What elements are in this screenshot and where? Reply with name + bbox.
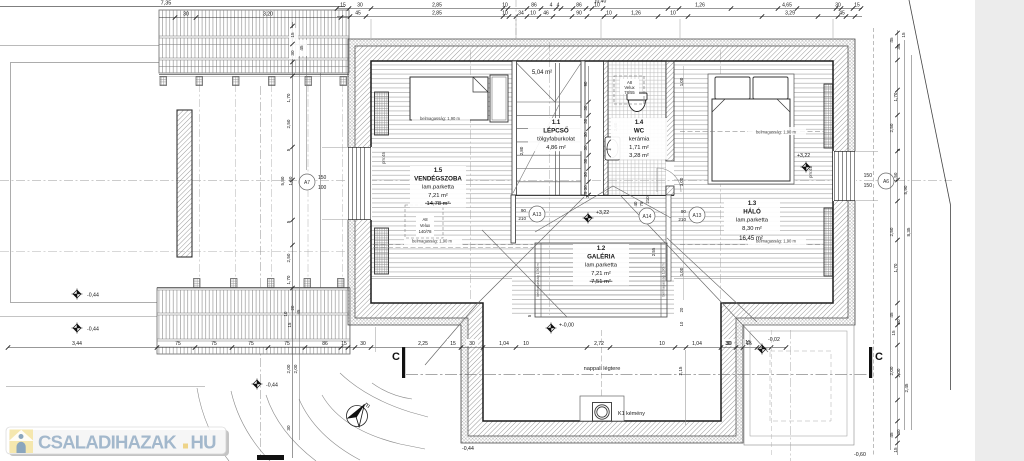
extension lines below [375, 327, 377, 352]
svg-text:A6: A6 [883, 179, 889, 185]
toilet [627, 93, 647, 112]
svg-text:100: 100 [318, 185, 327, 191]
svg-text:1,04: 1,04 [499, 341, 509, 347]
guest bed 1.90 label [412, 114, 470, 122]
svg-text:A7: A7 [304, 180, 310, 186]
svg-text:2,15: 2,15 [678, 366, 683, 375]
svg-text:+3,22: +3,22 [797, 153, 810, 159]
svg-text:pm:45: pm:45 [381, 152, 386, 164]
axis dash horizontal y251 [0, 251, 348, 253]
svg-text:A13: A13 [533, 212, 542, 218]
bottom terrace deck planks [157, 288, 350, 354]
floor area boundary lines [371, 278, 512, 280]
svg-text:30: 30 [583, 105, 588, 110]
level +3,22 center [583, 213, 594, 224]
chimney K1 [580, 396, 624, 421]
svg-text:C: C [392, 351, 400, 363]
svg-text:1,26: 1,26 [695, 3, 705, 9]
svg-text:15: 15 [745, 340, 751, 346]
pillar / lower chimney [177, 110, 192, 257]
top dimension chain row1 [337, 8, 862, 10]
north arrow [347, 406, 368, 427]
svg-text:1,04: 1,04 [692, 341, 702, 347]
svg-text:3,44: 3,44 [72, 341, 82, 347]
svg-text:15: 15 [290, 32, 295, 38]
svg-text:10: 10 [659, 341, 665, 347]
galeria right knee wall [666, 195, 671, 281]
guest bed [410, 77, 488, 120]
svg-text:-0,44: -0,44 [87, 327, 99, 333]
structural axes in house [549, 42, 551, 315]
svg-text:3,28 m²: 3,28 m² [629, 153, 649, 159]
window A7 left wall [347, 147, 372, 220]
svg-text:86: 86 [576, 3, 582, 9]
roof window A8 (WC) [614, 76, 644, 104]
svg-text:15: 15 [287, 322, 292, 327]
svg-text:210: 210 [645, 196, 650, 204]
stair tread dimension chain [588, 66, 590, 198]
stair left wall [512, 61, 517, 195]
svg-text:7,51 m²: 7,51 m² [591, 279, 611, 285]
svg-text:1.3: 1.3 [748, 201, 757, 207]
galeria labels [573, 244, 629, 286]
long valley right [667, 238, 757, 322]
svg-text:2,72: 2,72 [594, 341, 604, 347]
svg-text:150: 150 [318, 175, 327, 181]
svg-text:2,50: 2,50 [286, 119, 291, 128]
svg-text:-0,02: -0,02 [768, 337, 780, 343]
svg-text:-0,44: -0,44 [87, 293, 99, 299]
svg-text:1,70: 1,70 [286, 93, 291, 102]
svg-text:10: 10 [523, 341, 529, 347]
svg-text:30: 30 [290, 50, 295, 56]
svg-text:45: 45 [355, 11, 361, 17]
svg-text:2,50: 2,50 [286, 253, 291, 262]
level marker -0,02 [757, 344, 768, 355]
right dim chain [890, 40, 892, 450]
deck post axes [199, 84, 201, 288]
svg-text:150: 150 [864, 173, 873, 179]
svg-text:86: 86 [531, 3, 537, 9]
svg-text:14,78 m²: 14,78 m² [427, 201, 450, 207]
watermark house icon [10, 430, 34, 454]
svg-text:belmagasság: 1,90 m: belmagasság: 1,90 m [756, 130, 797, 135]
site boundary line top [0, 6, 345, 8]
svg-text:7,35: 7,35 [161, 1, 172, 7]
WC door arc [657, 168, 681, 192]
svg-text:45: 45 [889, 312, 894, 318]
wash basin [605, 137, 620, 160]
scale bar [257, 455, 284, 460]
svg-text:1,26: 1,26 [631, 11, 641, 17]
svg-text:tölgyfaburkolat: tölgyfaburkolat [537, 137, 575, 143]
svg-text:15: 15 [893, 447, 898, 453]
svg-text:150: 150 [864, 183, 873, 189]
height 1.90 dashed bedroom top [680, 131, 824, 133]
svg-text:8,30 m²: 8,30 m² [742, 226, 762, 232]
svg-text:1,70: 1,70 [893, 263, 898, 272]
level +3,22 bedroom [801, 162, 812, 173]
svg-text:46: 46 [543, 11, 549, 17]
bedroom labels [724, 199, 780, 232]
svg-text:2,80: 2,80 [519, 146, 524, 155]
deck posts row top [160, 77, 167, 86]
svg-text:75: 75 [639, 201, 644, 206]
svg-text:15: 15 [891, 330, 896, 336]
svg-text:2,45: 2,45 [904, 383, 909, 392]
site boundary diagonal [909, 0, 951, 205]
svg-text:45: 45 [299, 45, 304, 51]
axis dash horizontal center y180 [0, 180, 952, 182]
svg-text:3,29: 3,29 [785, 11, 795, 17]
svg-text:7,21 m²: 7,21 m² [428, 193, 448, 199]
outer insulation band (cross-hatch) [348, 39, 855, 443]
svg-text:20: 20 [679, 307, 684, 312]
svg-text:10: 10 [502, 11, 508, 17]
stair center stringer [555, 63, 557, 195]
ground line lower left [6, 386, 205, 388]
svg-text:30: 30 [286, 425, 291, 431]
svg-text:5,90: 5,90 [903, 185, 908, 194]
pillows [715, 77, 750, 99]
level -0,44 markers [72, 289, 83, 300]
lower terrace outline [11, 63, 321, 303]
svg-text:LÉPCSŐ: LÉPCSŐ [543, 126, 569, 134]
svg-text:HÁLÓ: HÁLÓ [743, 207, 761, 215]
svg-text:3,20: 3,20 [263, 12, 273, 18]
lower terrace axis dashes [771, 330, 773, 458]
top terrace deck planks [159, 10, 349, 73]
section marker C right [869, 347, 872, 378]
svg-text:75: 75 [175, 341, 181, 347]
svg-text:1,00: 1,00 [679, 267, 684, 276]
stair right wall [581, 61, 585, 195]
svg-text:1.1: 1.1 [552, 120, 561, 126]
svg-text:75: 75 [284, 341, 290, 347]
window A7 marker [299, 174, 315, 190]
radiator upper left [375, 92, 389, 135]
svg-text:16,45 m²: 16,45 m² [739, 236, 763, 242]
svg-text:1.4: 1.4 [635, 120, 644, 126]
svg-text:-0,44: -0,44 [266, 383, 278, 389]
svg-text:210: 210 [518, 216, 526, 221]
svg-text:86: 86 [322, 341, 328, 347]
svg-text:30: 30 [360, 341, 366, 347]
svg-text:45: 45 [296, 309, 301, 314]
svg-text:lam.parketta: lam.parketta [585, 263, 618, 269]
svg-text:10: 10 [502, 3, 508, 9]
svg-text:15: 15 [901, 32, 906, 38]
stair treads [517, 102, 582, 195]
guest nightstand [490, 75, 508, 122]
svg-text:nappali légtere: nappali légtere [584, 366, 621, 372]
roof ridge V [535, 186, 671, 232]
svg-text:10: 10 [679, 321, 684, 326]
svg-text:+3,22: +3,22 [596, 210, 609, 216]
svg-text:2,00: 2,00 [896, 368, 901, 377]
svg-text:belmagasság 1,90 m: belmagasság 1,90 m [536, 263, 540, 296]
svg-text:K1 kémény: K1 kémény [618, 411, 645, 417]
svg-text:-0,60: -0,60 [854, 452, 866, 458]
stair cut line [513, 105, 559, 193]
gray page edge strip [975, 0, 1024, 461]
svg-text:1,70: 1,70 [286, 275, 291, 284]
svg-text:4: 4 [550, 3, 553, 9]
svg-text:pm:45: pm:45 [808, 166, 813, 178]
watermark shadow [9, 430, 229, 456]
top dimension chain row2 [337, 16, 862, 18]
svg-text:30: 30 [583, 158, 588, 163]
svg-text:A14: A14 [643, 214, 652, 220]
wc labels [611, 118, 667, 160]
roof window A8 guest (dashed) [405, 205, 443, 238]
WC right wall lower stub [666, 186, 674, 195]
long valley left [482, 230, 567, 317]
svg-text:30: 30 [583, 172, 588, 177]
stair wall extension to galeria [511, 195, 516, 243]
svg-text:34: 34 [518, 11, 524, 17]
terrace inner line [0, 316, 158, 318]
level marker 0.00 [546, 323, 557, 334]
svg-text:15: 15 [340, 3, 346, 9]
svg-text:2,00: 2,00 [889, 366, 894, 375]
svg-text:7,21 m²: 7,21 m² [591, 271, 611, 277]
height 1.90 dashed bedroom bottom [680, 244, 824, 246]
svg-text:+-0,00: +-0,00 [559, 323, 574, 329]
svg-text:CSALADIHAZAK: CSALADIHAZAK [38, 432, 177, 453]
svg-text:90: 90 [576, 11, 582, 17]
svg-text:45: 45 [889, 37, 894, 43]
galeria floor box [535, 243, 667, 317]
svg-text:30: 30 [583, 185, 588, 190]
svg-text:4,65: 4,65 [782, 3, 792, 9]
svg-text:78/55: 78/55 [624, 90, 635, 95]
svg-text:HU: HU [191, 432, 217, 453]
svg-text:2,00: 2,00 [286, 364, 291, 373]
svg-text:A13: A13 [693, 213, 702, 219]
deck posts row bottom [194, 279, 201, 288]
WC right wall [666, 61, 674, 161]
section marker C left [402, 347, 405, 378]
door A13 right [689, 207, 705, 223]
svg-text:10,40: 10,40 [594, 0, 607, 5]
svg-text:10: 10 [283, 311, 288, 316]
svg-text:2,50: 2,50 [889, 227, 894, 236]
WC tiled floor [608, 61, 666, 195]
window A6 right wall [833, 151, 856, 201]
svg-text:45: 45 [839, 11, 845, 17]
svg-text:8,35: 8,35 [906, 227, 911, 236]
radiator lower left [375, 228, 389, 274]
roof hip left [478, 197, 584, 303]
svg-text:2,50: 2,50 [889, 123, 894, 132]
svg-text:WC: WC [634, 127, 645, 134]
top dim ticks [335, 6, 339, 10]
blanket fold marks [712, 99, 790, 112]
wall outlines [348, 39, 855, 443]
watermark box [6, 427, 226, 454]
svg-text:75: 75 [248, 341, 254, 347]
svg-text:VENDÉGSZOBA: VENDÉGSZOBA [414, 174, 462, 182]
site line secondary [0, 45, 310, 47]
svg-text:30: 30 [469, 341, 475, 347]
roof hip right [620, 195, 723, 304]
bedroom radiator lower [824, 208, 833, 276]
svg-text:15: 15 [854, 3, 860, 9]
bottom dimension chain [8, 347, 786, 349]
top deck lower edge beam [159, 74, 349, 76]
svg-text:140/78: 140/78 [419, 229, 432, 234]
top extension stubs [370, 19, 372, 38]
bedroom radiator upper [824, 84, 833, 148]
stairs bottom edge [512, 195, 674, 197]
door A14 center [639, 208, 655, 224]
svg-text:15: 15 [450, 341, 456, 347]
svg-text:1,71 m²: 1,71 m² [629, 145, 649, 151]
svg-text:90: 90 [681, 209, 687, 214]
svg-text:4,86 m²: 4,86 m² [546, 145, 566, 151]
svg-text:belmagasság: 1,90 m: belmagasság: 1,90 m [412, 239, 453, 244]
top deck dimension line [159, 17, 349, 19]
svg-text:40: 40 [633, 201, 638, 206]
svg-text:210: 210 [678, 217, 686, 222]
right axis dashed [873, 28, 875, 455]
svg-text:1,00: 1,00 [679, 77, 684, 86]
door A13 left [529, 206, 545, 222]
stairs labels [528, 118, 584, 151]
main wall band (diagonal hatch) [355, 46, 848, 436]
svg-text:30: 30 [726, 341, 732, 347]
center band floor [512, 195, 674, 317]
left axis dash vertical [260, 86, 262, 458]
svg-text:3,00: 3,00 [679, 177, 684, 186]
svg-text:-0,44: -0,44 [462, 446, 474, 452]
lower terrace right outline [744, 325, 854, 445]
svg-text:1,70: 1,70 [893, 92, 898, 101]
double bed [708, 74, 794, 184]
svg-text:lam.parketta: lam.parketta [736, 218, 769, 224]
svg-text:2,85: 2,85 [432, 11, 442, 17]
svg-text:30: 30 [357, 3, 363, 9]
svg-text:30: 30 [835, 3, 841, 9]
WC left wall [604, 61, 609, 195]
guest room parquet floor [371, 61, 512, 278]
svg-text:30: 30 [183, 12, 189, 18]
svg-text:5,80: 5,80 [280, 176, 285, 185]
left dim chain [292, 22, 294, 290]
svg-text:1.5: 1.5 [434, 168, 443, 174]
svg-text:45: 45 [889, 432, 894, 438]
svg-text:10: 10 [670, 11, 676, 17]
svg-text:5,04 m²: 5,04 m² [532, 70, 552, 76]
vertical dim line x292 lower [292, 352, 294, 458]
guest room labels [410, 166, 466, 208]
height 1.90 dashed line guest [373, 244, 533, 246]
center axis of extension [601, 330, 603, 420]
svg-text:belmagasság 1,90 m: belmagasság 1,90 m [662, 263, 666, 296]
svg-text:belmagasság: 1,90 m: belmagasság: 1,90 m [420, 116, 461, 121]
bedroom parquet floor [674, 61, 833, 278]
svg-text:10: 10 [530, 11, 536, 17]
svg-text:GALÉRIA: GALÉRIA [587, 252, 615, 260]
svg-text:lam.parketta: lam.parketta [422, 185, 455, 191]
svg-text:10: 10 [606, 11, 612, 17]
stair top roof X [517, 63, 582, 102]
svg-text:Velux: Velux [420, 223, 431, 228]
window extension stub lines [322, 147, 348, 149]
svg-text:A8: A8 [422, 217, 428, 222]
svg-text:90: 90 [521, 208, 527, 213]
svg-text:30: 30 [896, 429, 901, 435]
section line C-C [406, 374, 868, 376]
svg-text:90: 90 [583, 81, 588, 86]
svg-text:2,25: 2,25 [418, 341, 428, 347]
window A6 marker [878, 173, 894, 189]
garden path arcs [197, 388, 229, 461]
svg-text:C: C [875, 351, 883, 363]
svg-text:2,85: 2,85 [432, 3, 442, 9]
svg-text:1.2: 1.2 [597, 246, 606, 252]
svg-text:75: 75 [211, 341, 217, 347]
svg-text:kerámia: kerámia [629, 137, 650, 143]
svg-text:2,00: 2,00 [293, 364, 298, 373]
